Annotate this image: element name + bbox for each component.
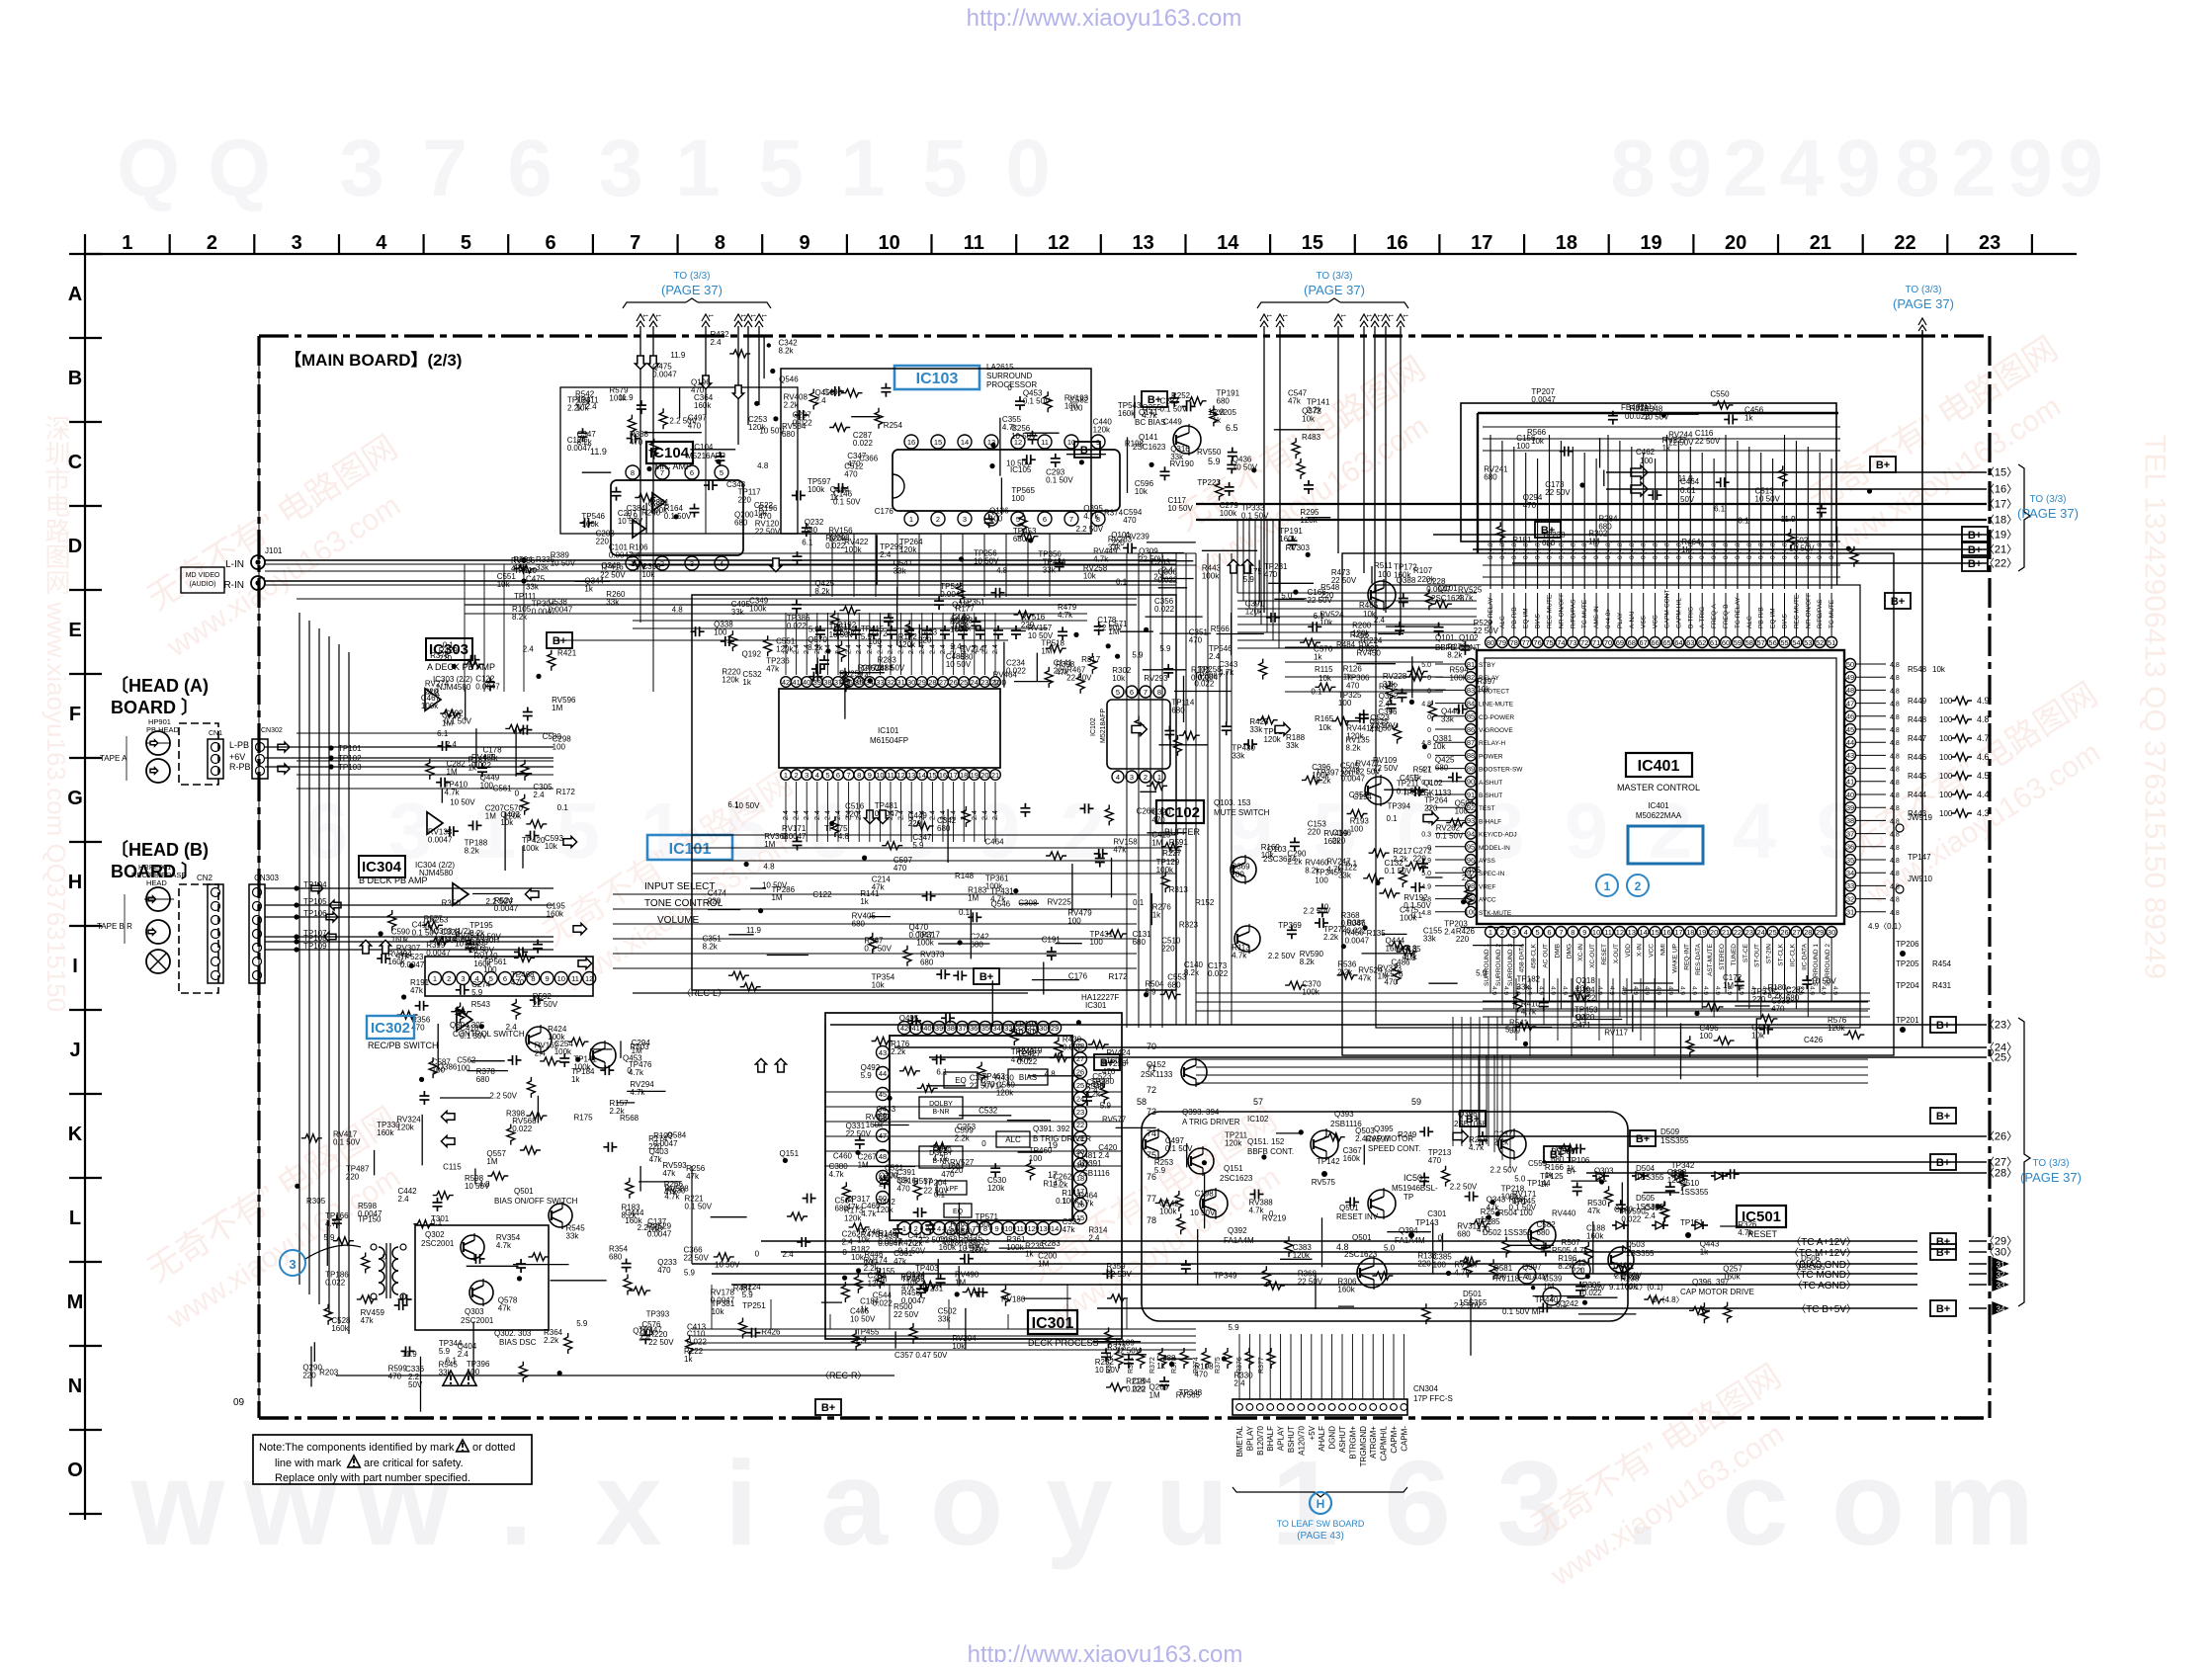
svg-text:680: 680 <box>1457 1230 1471 1239</box>
svg-text:2.4: 2.4 <box>794 644 801 654</box>
svg-text:10k: 10k <box>1319 618 1333 626</box>
svg-text:ST-OUT: ST-OUT <box>1754 944 1761 967</box>
svg-text:2.4: 2.4 <box>929 810 936 820</box>
svg-text:IC401: IC401 <box>1638 758 1680 775</box>
svg-text:〈16〉: 〈16〉 <box>1984 483 2017 496</box>
svg-text:40: 40 <box>803 678 810 687</box>
svg-text:22 50V: 22 50V <box>846 1129 872 1138</box>
svg-text:2.2 50V: 2.2 50V <box>1450 1182 1478 1191</box>
svg-text:0.1 50V: 0.1 50V <box>1436 832 1464 841</box>
svg-text:58: 58 <box>1137 1097 1147 1107</box>
svg-text:2.4: 2.4 <box>710 338 722 347</box>
svg-text:0.022: 0.022 <box>1157 575 1178 584</box>
svg-text:O: O <box>67 1459 83 1481</box>
svg-text:100: 100 <box>1516 442 1530 451</box>
svg-text:22 50V: 22 50V <box>600 571 626 580</box>
svg-text:22 50V: 22 50V <box>893 1310 919 1319</box>
svg-text:0: 0 <box>627 1066 632 1075</box>
svg-text:9: 9 <box>977 787 1021 875</box>
svg-text:11: 11 <box>571 974 579 983</box>
svg-text:TP206: TP206 <box>1896 940 1919 949</box>
svg-text:CN2: CN2 <box>197 874 213 882</box>
svg-text:B-SHUT: B-SHUT <box>1479 792 1502 799</box>
svg-text:680: 680 <box>920 958 934 966</box>
svg-text:D502 1SS355: D502 1SS355 <box>1483 1228 1532 1237</box>
svg-text:2.4: 2.4 <box>1379 700 1391 708</box>
svg-text:47k: 47k <box>1018 1054 1032 1063</box>
svg-text:TP394: TP394 <box>1387 802 1410 811</box>
svg-text:0.0047: 0.0047 <box>711 1295 735 1304</box>
svg-text:1k: 1k <box>742 678 751 687</box>
svg-text:2.2k: 2.2k <box>864 1264 880 1273</box>
svg-text:15: 15 <box>928 771 936 780</box>
svg-text:18: 18 <box>1686 928 1694 937</box>
svg-text:X-IN: X-IN <box>1637 944 1644 957</box>
svg-text:100: 100 <box>1433 1261 1447 1270</box>
svg-text:43: 43 <box>1846 751 1854 760</box>
svg-text:3: 3 <box>1525 1272 1530 1281</box>
svg-text:470: 470 <box>1264 570 1278 579</box>
svg-text:1k: 1k <box>1681 545 1690 554</box>
svg-text:2.4: 2.4 <box>1234 1378 1245 1387</box>
svg-text:IC101: IC101 <box>669 841 712 858</box>
svg-text:0.1 50V: 0.1 50V <box>1404 901 1431 910</box>
svg-text:120k: 120k <box>1225 1139 1242 1148</box>
svg-text:ST-CE: ST-CE <box>1743 943 1749 962</box>
svg-text:15: 15 <box>1651 928 1659 937</box>
svg-text:EQ-I/M: EQ-I/M <box>1770 608 1777 628</box>
svg-text:BOARD 〕: BOARD 〕 <box>111 698 199 717</box>
svg-text:R135: R135 <box>1367 929 1387 938</box>
svg-text:0.0047: 0.0047 <box>1341 919 1366 928</box>
svg-text:1: 1 <box>433 974 437 983</box>
svg-text:3: 3 <box>1512 928 1516 937</box>
svg-text:BHALF: BHALF <box>1266 1426 1275 1452</box>
svg-text:4: 4 <box>1116 773 1120 782</box>
svg-text:100: 100 <box>1338 699 1352 708</box>
svg-text:AVCC: AVCC <box>1479 897 1496 904</box>
svg-text:47k: 47k <box>410 986 424 995</box>
svg-text:IC304: IC304 <box>362 859 402 875</box>
svg-text:2.4: 2.4 <box>523 644 535 653</box>
svg-text:BSHUT: BSHUT <box>1287 1426 1296 1453</box>
svg-text:78: 78 <box>1147 1215 1156 1225</box>
svg-text:6: 6 <box>1547 928 1551 937</box>
svg-text:〈23〉: 〈23〉 <box>1984 1019 2017 1032</box>
svg-text:R-IN: R-IN <box>223 580 244 591</box>
svg-text:R445: R445 <box>1908 772 1927 781</box>
svg-text:65: 65 <box>1662 638 1670 647</box>
svg-text:53: 53 <box>1804 638 1812 647</box>
svg-text:#PC1330H: #PC1330H <box>461 936 499 945</box>
svg-text:CN304: CN304 <box>1413 1384 1438 1393</box>
svg-text:1k: 1k <box>571 1075 580 1084</box>
svg-text:Q391: Q391 <box>1082 1159 1102 1168</box>
svg-text:〈TC AGND〉: 〈TC AGND〉 <box>1793 1280 1856 1292</box>
svg-text:8: 8 <box>857 771 861 780</box>
svg-text:L-IN: L-IN <box>225 559 244 570</box>
svg-text:16: 16 <box>907 438 915 447</box>
svg-text:220: 220 <box>1752 995 1766 1004</box>
svg-text:4: 4 <box>1524 928 1528 937</box>
svg-text:TAPE A: TAPE A <box>100 754 128 763</box>
svg-text:1SS355: 1SS355 <box>1660 1136 1689 1145</box>
svg-text:11.9: 11.9 <box>1678 474 1694 483</box>
svg-text:1k: 1k <box>584 584 593 593</box>
svg-text:RV597: RV597 <box>1366 1134 1391 1143</box>
svg-text:1: 1 <box>902 1224 906 1233</box>
svg-text:AVSS: AVSS <box>1479 858 1496 865</box>
svg-text:5: 5 <box>556 787 601 875</box>
svg-text:8.2k: 8.2k <box>465 847 480 856</box>
svg-text:100: 100 <box>989 514 1003 523</box>
svg-text:10k: 10k <box>906 1279 920 1288</box>
svg-text:6: 6 <box>836 771 840 780</box>
svg-text:83: 83 <box>1467 686 1475 695</box>
svg-text:4.8: 4.8 <box>1890 910 1900 917</box>
svg-text:RV117: RV117 <box>1604 1029 1628 1038</box>
svg-text:16: 16 <box>939 771 947 780</box>
svg-text:2.2 50V: 2.2 50V <box>1304 906 1331 915</box>
svg-text:100: 100 <box>1699 1032 1713 1041</box>
svg-text:L: L <box>69 1208 81 1229</box>
svg-text:6: 6 <box>1384 1436 1451 1570</box>
svg-text:66: 66 <box>1651 638 1659 647</box>
svg-text:2.4: 2.4 <box>533 791 545 799</box>
svg-text:47k: 47k <box>766 664 780 673</box>
svg-text:100k: 100k <box>985 882 1003 891</box>
svg-text:KEY/CD-ADJ: KEY/CD-ADJ <box>1479 832 1517 839</box>
svg-text:220: 220 <box>1132 1385 1146 1394</box>
svg-text:RESET: RESET <box>1601 944 1608 965</box>
svg-text:BIAS ON/OFF SWITCH: BIAS ON/OFF SWITCH <box>494 1197 578 1206</box>
svg-text:(PAGE 37): (PAGE 37) <box>2020 1170 2082 1185</box>
svg-text:2.4: 2.4 <box>794 810 801 820</box>
svg-text:R249: R249 <box>1398 1130 1417 1139</box>
svg-text:6.5: 6.5 <box>1226 423 1238 433</box>
svg-text:0: 0 <box>1269 1209 1274 1218</box>
svg-text:2: 2 <box>936 515 940 524</box>
svg-text:35: 35 <box>981 1024 989 1033</box>
svg-text:17: 17 <box>1471 232 1492 254</box>
svg-text:4.9: 4.9 <box>1702 986 1709 995</box>
svg-text:1k: 1k <box>1744 414 1753 423</box>
svg-text:R446: R446 <box>1908 753 1927 762</box>
svg-text:22 50V: 22 50V <box>683 1253 709 1262</box>
svg-text:1k: 1k <box>1152 910 1161 919</box>
svg-text:TO (3/3): TO (3/3) <box>2029 494 2066 505</box>
svg-text:220: 220 <box>1417 1259 1431 1268</box>
svg-text:1M: 1M <box>1149 1391 1160 1400</box>
svg-text:3: 3 <box>461 974 465 983</box>
svg-text:0.0047: 0.0047 <box>400 960 425 969</box>
svg-text:MUTE SWITCH: MUTE SWITCH <box>1214 808 1270 817</box>
svg-text:88: 88 <box>1467 751 1475 760</box>
svg-text:8.2k: 8.2k <box>1447 651 1463 660</box>
svg-text:120k: 120k <box>844 1213 862 1222</box>
svg-text:B+: B+ <box>821 1402 835 1414</box>
svg-text:RES-DATA: RES-DATA <box>1695 943 1702 975</box>
svg-text:1k: 1k <box>860 1305 869 1314</box>
svg-text:220: 220 <box>1021 621 1035 629</box>
svg-text:0.022: 0.022 <box>1006 667 1027 676</box>
svg-text:220: 220 <box>708 897 722 906</box>
svg-text:PB-R/B: PB-R/B <box>1758 607 1765 628</box>
svg-text:2.2 50V: 2.2 50V <box>485 897 513 906</box>
svg-text:〈21〉: 〈21〉 <box>1984 543 2017 556</box>
svg-text:y: y <box>1046 1436 1113 1570</box>
svg-text:0.0047: 0.0047 <box>647 1229 672 1238</box>
svg-text:30: 30 <box>907 678 915 687</box>
svg-text:2.4: 2.4 <box>783 1250 795 1259</box>
svg-text:57: 57 <box>1253 1097 1263 1107</box>
svg-text:10k: 10k <box>1112 674 1126 683</box>
svg-text:C198: C198 <box>1195 1190 1215 1199</box>
svg-text:line with mark: line with mark <box>275 1458 342 1469</box>
svg-text:0.01: 0.01 <box>1680 486 1696 495</box>
svg-text:82: 82 <box>1467 673 1475 682</box>
svg-text:5.9: 5.9 <box>742 1291 754 1299</box>
svg-text:0<4.8>: 0<4.8> <box>1605 609 1612 628</box>
svg-text:2.2k: 2.2k <box>955 1134 971 1143</box>
svg-text:Q151: Q151 <box>1224 1164 1243 1173</box>
svg-text:C413: C413 <box>687 1322 707 1331</box>
svg-text:47k: 47k <box>1063 1225 1076 1234</box>
svg-text:Q584: Q584 <box>667 1131 687 1140</box>
svg-text:〈17〉: 〈17〉 <box>1984 498 2017 511</box>
svg-text:1k: 1k <box>830 493 839 502</box>
svg-text:TP150: TP150 <box>358 1215 382 1224</box>
svg-text:2.2k: 2.2k <box>784 400 800 409</box>
svg-text:2.2k: 2.2k <box>544 1336 559 1345</box>
svg-text:深圳市电路图网 www.xiaoyu163.com QQ37: 深圳市电路图网 www.xiaoyu163.com QQ376315150 <box>42 415 71 1012</box>
svg-text:4.8: 4.8 <box>838 832 850 841</box>
svg-text:2.2k: 2.2k <box>1323 933 1339 942</box>
svg-text:9: 9 <box>1666 124 1712 213</box>
svg-text:120k: 120k <box>776 644 794 653</box>
svg-text:92: 92 <box>1467 803 1475 812</box>
svg-text:4.8: 4.8 <box>1045 1069 1057 1078</box>
svg-text:4.8: 4.8 <box>1421 740 1431 747</box>
svg-text:TP151: TP151 <box>1680 1218 1704 1227</box>
svg-text:D: D <box>68 536 82 557</box>
svg-text:10 50V: 10 50V <box>1755 495 1781 504</box>
svg-text:A-NAI: A-NAI <box>1629 611 1636 628</box>
svg-text:2.4: 2.4 <box>992 810 999 820</box>
svg-text:33k: 33k <box>1232 751 1245 760</box>
svg-text:220: 220 <box>346 1173 360 1182</box>
svg-text:45: 45 <box>879 1090 887 1099</box>
svg-text:33k: 33k <box>1108 542 1122 551</box>
svg-text:Q495: Q495 <box>899 1014 919 1023</box>
svg-text:5: 5 <box>1116 688 1120 697</box>
svg-text:〈TC A+12V〉: 〈TC A+12V〉 <box>1791 1236 1856 1248</box>
svg-text:2.2 50V: 2.2 50V <box>1454 1301 1482 1310</box>
svg-text:4.8: 4.8 <box>1890 753 1900 760</box>
svg-text:8.2k: 8.2k <box>512 613 528 622</box>
svg-text:2.4: 2.4 <box>835 810 842 820</box>
svg-text:IC302: IC302 <box>371 1020 410 1037</box>
svg-text:ALC: ALC <box>1746 616 1753 628</box>
svg-text:N: N <box>68 1375 82 1397</box>
svg-text:34: 34 <box>1997 1305 2005 1314</box>
svg-text:Replace only with part number: Replace only with part number specified. <box>275 1472 470 1484</box>
svg-text:77: 77 <box>1522 638 1530 647</box>
svg-text:47k: 47k <box>1288 397 1302 406</box>
svg-text:680: 680 <box>1167 980 1181 989</box>
svg-text:TP251: TP251 <box>742 1301 766 1310</box>
svg-text:BIAS: BIAS <box>1019 1073 1037 1082</box>
svg-text:220: 220 <box>648 1142 662 1151</box>
svg-text:10k: 10k <box>872 981 886 990</box>
svg-text:V-GROOVE: V-GROOVE <box>1479 727 1513 734</box>
svg-text:12: 12 <box>1028 1224 1036 1233</box>
svg-text:J101: J101 <box>265 546 283 555</box>
svg-text:70: 70 <box>1604 638 1612 647</box>
svg-text:B+: B+ <box>1550 1149 1564 1161</box>
svg-text:Q151: Q151 <box>779 1149 799 1158</box>
svg-text:TP101: TP101 <box>338 744 362 753</box>
svg-text:680: 680 <box>937 824 951 833</box>
svg-text:C426: C426 <box>1804 1036 1824 1044</box>
svg-text:680: 680 <box>734 518 748 527</box>
svg-text:79: 79 <box>1498 638 1506 647</box>
svg-text:0.1 50V: 0.1 50V <box>684 1203 712 1211</box>
svg-text:1: 1 <box>909 515 913 524</box>
svg-text:10k: 10k <box>1135 487 1149 496</box>
svg-text:22 50V: 22 50V <box>533 1000 558 1009</box>
svg-text:4.7k: 4.7k <box>1058 611 1073 620</box>
svg-text:R172: R172 <box>556 788 576 796</box>
svg-text:2.4: 2.4 <box>824 810 831 820</box>
svg-text:9: 9 <box>868 771 872 780</box>
svg-text:HA12227F: HA12227F <box>1081 993 1119 1002</box>
svg-text:R373: R373 <box>1107 1343 1127 1352</box>
svg-text:1M: 1M <box>968 894 978 903</box>
svg-text:47k: 47k <box>1113 846 1127 855</box>
svg-text:R376: R376 <box>430 651 450 660</box>
svg-text:2.2k: 2.2k <box>1287 857 1303 866</box>
svg-text:Q101. Q102: Q101. Q102 <box>1435 633 1479 642</box>
svg-text:100: 100 <box>1378 570 1392 579</box>
svg-text:R152: R152 <box>1195 898 1215 907</box>
svg-text:CAPM+: CAPM+ <box>1390 1426 1399 1454</box>
svg-text:33k: 33k <box>1423 935 1437 944</box>
svg-text:10 50V: 10 50V <box>551 559 576 568</box>
svg-text:R350: R350 <box>442 899 462 908</box>
svg-text:C301: C301 <box>1427 1209 1447 1218</box>
svg-text:TO (3/3): TO (3/3) <box>1905 285 1941 295</box>
svg-text:74: 74 <box>1557 638 1565 647</box>
svg-text:10k: 10k <box>641 1328 655 1337</box>
svg-text:BPLAY: BPLAY <box>1245 1425 1254 1451</box>
svg-text:RV440: RV440 <box>1552 1209 1576 1218</box>
svg-text:10k: 10k <box>712 1307 725 1316</box>
svg-text:RESET INV: RESET INV <box>1336 1212 1379 1221</box>
svg-text:〈26〉: 〈26〉 <box>1984 1130 2017 1143</box>
svg-text:Q394: Q394 <box>1399 1226 1418 1235</box>
svg-text:A-TRIG: A-TRIG <box>1699 607 1706 628</box>
svg-text:ATRGM+: ATRGM+ <box>1369 1426 1378 1459</box>
svg-text:C550: C550 <box>1710 390 1730 399</box>
svg-text:48: 48 <box>879 1152 887 1161</box>
svg-text:0.022: 0.022 <box>1063 1043 1083 1052</box>
svg-text:44: 44 <box>1846 738 1854 747</box>
svg-text:AHALF: AHALF <box>1318 1426 1326 1452</box>
svg-text:4: 4 <box>475 974 479 983</box>
svg-text:56: 56 <box>1768 638 1776 647</box>
svg-text:100: 100 <box>1465 908 1478 917</box>
svg-text:6.1: 6.1 <box>802 538 813 546</box>
svg-text:R444: R444 <box>1908 791 1927 799</box>
svg-text:R372: R372 <box>1149 1357 1156 1374</box>
svg-text:62: 62 <box>1698 638 1706 647</box>
svg-text:100k: 100k <box>522 844 540 853</box>
svg-text:Q192: Q192 <box>741 649 761 658</box>
svg-text:DMG: DMG <box>1566 944 1573 959</box>
svg-text:1: 1 <box>1489 928 1492 937</box>
svg-text:C449: C449 <box>1163 418 1183 427</box>
svg-text:C471: C471 <box>1572 1021 1591 1030</box>
svg-text:2.4: 2.4 <box>804 810 810 820</box>
svg-text:3: 3 <box>289 1257 296 1272</box>
svg-text:2.4: 2.4 <box>1209 652 1221 661</box>
svg-text:0.1: 0.1 <box>1116 577 1128 586</box>
svg-text:5.0: 5.0 <box>1421 662 1431 669</box>
svg-text:EQ-I/M: EQ-I/M <box>1523 608 1530 628</box>
svg-text:BC BIAS: BC BIAS <box>1135 418 1166 427</box>
svg-text:27: 27 <box>1076 1054 1084 1063</box>
svg-text:+6V: +6V <box>229 752 245 762</box>
svg-text:31: 31 <box>1846 908 1854 917</box>
svg-text:19: 19 <box>1640 232 1661 254</box>
svg-text:8: 8 <box>1571 928 1574 937</box>
svg-text:2.4: 2.4 <box>888 644 894 654</box>
svg-text:32: 32 <box>1846 894 1854 903</box>
svg-text:2.2k: 2.2k <box>575 398 591 407</box>
svg-text:D501: D501 <box>1463 1290 1483 1298</box>
svg-text:A TRIG DRIVER: A TRIG DRIVER <box>1182 1118 1240 1126</box>
svg-text:458-DATA: 458-DATA <box>1519 943 1526 972</box>
svg-text:or dotted: or dotted <box>472 1442 515 1454</box>
svg-text:TP147: TP147 <box>1908 853 1931 862</box>
svg-text:9: 9 <box>799 232 809 254</box>
svg-text:3: 3 <box>598 124 643 213</box>
svg-text:JW910: JW910 <box>1908 875 1932 883</box>
svg-text:JW919: JW919 <box>1908 813 1932 822</box>
svg-text:ALC: ALC <box>1499 616 1506 628</box>
svg-text:1M: 1M <box>858 1160 869 1169</box>
svg-text:BIAS: BIAS <box>1535 614 1542 628</box>
svg-text:120k: 120k <box>504 811 522 820</box>
svg-text:4.8: 4.8 <box>763 862 775 871</box>
svg-text:8.2k: 8.2k <box>1305 867 1320 875</box>
svg-text:AST-MUTE: AST-MUTE <box>1707 943 1714 976</box>
svg-text:0.1 50V: 0.1 50V <box>444 717 471 726</box>
svg-text:TC-RELAY: TC-RELAY <box>1735 597 1742 628</box>
svg-text:0: 0 <box>1427 714 1431 721</box>
svg-text:X-OUT: X-OUT <box>1613 944 1620 963</box>
svg-text:220: 220 <box>596 537 610 545</box>
svg-text:100: 100 <box>1011 494 1025 503</box>
svg-text:13: 13 <box>1133 232 1154 254</box>
svg-text:AMS-IN: AMS-IN <box>1593 606 1600 628</box>
svg-text:0.1 50V: 0.1 50V <box>1509 1204 1537 1212</box>
svg-text:1: 1 <box>675 124 721 213</box>
svg-text:680: 680 <box>1542 539 1556 547</box>
svg-text:3: 3 <box>1130 773 1134 782</box>
svg-text:0.1 50V: 0.1 50V <box>878 663 905 672</box>
